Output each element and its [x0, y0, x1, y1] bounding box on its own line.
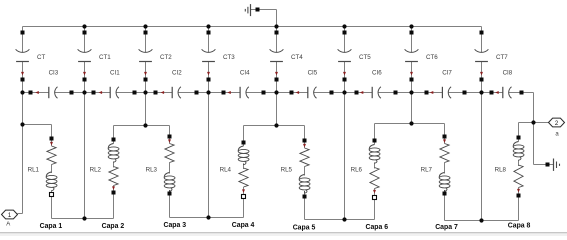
- wire port 1 to column 1: [18, 93, 23, 214]
- wire T2 RL2-RL3 top: [114, 125, 170, 127]
- ground G1 (top): [245, 4, 276, 26]
- label CT6: [426, 54, 438, 61]
- node bus junction col 1: [20, 90, 24, 94]
- wire column 5 shunt branch: [276, 27, 278, 93]
- svg-text:Capa 7: Capa 7: [435, 224, 458, 231]
- label CI4: [240, 69, 250, 76]
- capacitor CT2: [139, 31, 153, 82]
- wire bottom bus Capa1-2: [52, 218, 114, 220]
- wire bus section CI3: [23, 92, 85, 94]
- svg-text:CI2: CI2: [172, 69, 182, 76]
- label RL1: [28, 167, 40, 174]
- wire bus section CI1: [85, 92, 146, 94]
- label RL6: [351, 167, 363, 174]
- svg-text:RL2: RL2: [90, 167, 102, 174]
- capacitor CT5: [338, 31, 352, 82]
- wire bus section CI5: [277, 92, 345, 94]
- node bus junction col 7: [409, 90, 413, 94]
- svg-text:CT: CT: [37, 54, 45, 61]
- wire T4 RL6-RL7 top: [375, 123, 445, 125]
- series RL branch RL4: [238, 141, 249, 199]
- wire bus section CI2: [146, 92, 209, 94]
- node bus junction col 2: [82, 90, 86, 94]
- label CT7: [496, 54, 508, 61]
- wire bus section CI7: [412, 92, 482, 94]
- wire column 6 lower: [344, 93, 346, 220]
- node rail junction col 4: [206, 24, 210, 28]
- capacitor CT7: [475, 31, 489, 82]
- node rail junction col 2: [82, 24, 86, 28]
- svg-text:CT7: CT7: [496, 54, 508, 61]
- node T4 col7 junction: [409, 121, 413, 125]
- series RL branch RL2: [108, 138, 119, 195]
- wire column 8 shunt branch: [481, 27, 483, 93]
- wire RL7 branch: [444, 124, 446, 221]
- wire T1 col1 to RL1 top: [23, 124, 52, 126]
- svg-text:a: a: [555, 132, 559, 138]
- svg-text:CI4: CI4: [240, 69, 250, 76]
- node bus junction col 8: [479, 90, 483, 94]
- svg-text:CI8: CI8: [503, 69, 513, 76]
- wire RL5 branch: [304, 126, 306, 220]
- capacitor CI4: [222, 87, 266, 99]
- svg-text:CT3: CT3: [223, 54, 235, 61]
- capacitor CI7: [425, 87, 467, 99]
- series RL branch RL7: [439, 135, 450, 196]
- wire column 7 shunt branch: [411, 27, 413, 93]
- wire T3 RL4-RL5 top: [244, 125, 305, 127]
- label CI8: [503, 69, 513, 76]
- svg-text:RL7: RL7: [421, 167, 433, 174]
- svg-text:RL6: RL6: [351, 167, 363, 174]
- label Capa 6: [365, 224, 388, 231]
- svg-text:Capa 3: Capa 3: [163, 222, 186, 229]
- node rail junction col 5: [274, 24, 278, 28]
- svg-text:CT2: CT2: [160, 54, 172, 61]
- wire column 2 shunt branch: [84, 27, 86, 93]
- wire RL4 branch: [243, 126, 245, 218]
- wire column 4 shunt branch: [208, 27, 210, 93]
- wire bus section CI8: [482, 92, 534, 94]
- wire RL2 branch: [113, 126, 115, 219]
- label CI1: [110, 69, 120, 76]
- series RL branch RL6: [369, 139, 380, 200]
- label CI6: [372, 69, 382, 76]
- svg-text:Capa 5: Capa 5: [293, 225, 316, 232]
- svg-text:A: A: [6, 222, 10, 228]
- wire column 6 shunt branch: [344, 27, 346, 93]
- label CT: [37, 54, 45, 61]
- svg-text:CI1: CI1: [110, 69, 120, 76]
- wire T5 RL8 top jog: [519, 122, 534, 124]
- svg-text:Capa 2: Capa 2: [102, 223, 125, 230]
- wire top ground rail: [23, 26, 482, 28]
- series RL branch RL5: [299, 139, 310, 199]
- node N2 port-2 junction: [531, 120, 535, 124]
- wire bottom bus Capa5-6: [305, 219, 375, 221]
- wire column 3 lower: [145, 93, 147, 126]
- svg-text:RL8: RL8: [495, 167, 507, 174]
- label Capa 5: [293, 225, 316, 232]
- label a: [555, 132, 559, 138]
- label RL5: [281, 167, 293, 174]
- svg-text:RL1: RL1: [28, 167, 40, 174]
- label CT2: [160, 54, 172, 61]
- label CI3: [49, 69, 59, 76]
- capacitor CT4: [270, 31, 284, 82]
- wire bus right elbow: [533, 93, 535, 123]
- label Capa 2: [102, 223, 125, 230]
- label CI5: [308, 69, 318, 76]
- label Capa 7: [435, 224, 458, 231]
- svg-text:CT5: CT5: [359, 54, 371, 61]
- wire column 1 shunt branch: [22, 27, 24, 93]
- capacitor CI8: [490, 87, 524, 99]
- label A: [6, 222, 10, 228]
- ground G2 (right): [534, 123, 560, 171]
- label CT3: [223, 54, 235, 61]
- label Capa 4: [232, 222, 255, 229]
- wire column 3 shunt branch: [145, 27, 147, 93]
- label Capa 3: [163, 222, 186, 229]
- svg-text:Capa 1: Capa 1: [40, 223, 63, 230]
- svg-text:CT4: CT4: [291, 54, 303, 61]
- wire RL8 branch: [518, 123, 520, 221]
- svg-text:RL4: RL4: [220, 167, 232, 174]
- node bottom col4: [206, 215, 210, 219]
- capacitor CT: [16, 31, 30, 82]
- label RL2: [90, 167, 102, 174]
- svg-text:Capa 4: Capa 4: [232, 222, 255, 229]
- series RL branch RL3: [164, 135, 175, 196]
- wire bus section CI6: [345, 92, 412, 94]
- node bottom col2: [82, 216, 86, 220]
- svg-text:Capa 6: Capa 6: [365, 224, 388, 231]
- capacitor CI5: [290, 87, 334, 99]
- capacitor CI1: [92, 87, 137, 99]
- wire column 2 lower: [84, 93, 86, 219]
- node rail junction col 7: [409, 24, 413, 28]
- label RL8: [495, 167, 507, 174]
- svg-text:RL3: RL3: [146, 167, 158, 174]
- wire bottom bus Capa7-8: [445, 220, 519, 222]
- wire column 4 lower: [208, 93, 210, 218]
- label RL3: [146, 167, 158, 174]
- label RL4: [220, 167, 232, 174]
- series RL branch RL8: [513, 136, 524, 198]
- label CI2: [172, 69, 182, 76]
- port 2: [549, 118, 565, 127]
- wire column 8 lower: [481, 93, 483, 221]
- svg-text:Capa 8: Capa 8: [508, 223, 531, 230]
- node T1 junction: [20, 122, 24, 126]
- node bus junction col 3: [143, 90, 147, 94]
- label CI7: [442, 69, 452, 76]
- wire RL6 branch: [374, 124, 376, 220]
- label CT1: [99, 54, 111, 61]
- label Capa 1: [40, 223, 63, 230]
- svg-text:RL5: RL5: [281, 167, 293, 174]
- svg-text:CT6: CT6: [426, 54, 438, 61]
- svg-text:CT1: CT1: [99, 54, 111, 61]
- node bus junction col 4: [206, 90, 210, 94]
- wire RL1 branch: [51, 125, 53, 219]
- port 1: [2, 210, 18, 219]
- wire column 5 lower: [276, 93, 278, 126]
- svg-text:CI5: CI5: [308, 69, 318, 76]
- series RL branch RL1: [46, 137, 57, 197]
- capacitor CT3: [202, 31, 216, 82]
- node bus junction col 6: [342, 90, 346, 94]
- node rail junction col 3: [143, 24, 147, 28]
- node rail junction col 6: [342, 24, 346, 28]
- capacitor CI2: [154, 87, 199, 99]
- node bottom col6: [342, 217, 346, 221]
- capacitor CT6: [405, 31, 419, 82]
- svg-text:CI7: CI7: [442, 69, 452, 76]
- wire bottom bus Capa3-4: [170, 217, 244, 219]
- node T3 col5 junction: [274, 123, 278, 127]
- label CT4: [291, 54, 303, 61]
- node bus junction col 5: [274, 90, 278, 94]
- wire bus section CI4: [209, 92, 277, 94]
- label CT5: [359, 54, 371, 61]
- wire RL3 branch: [169, 126, 171, 218]
- node bottom col8: [479, 218, 483, 222]
- capacitor CI6: [355, 87, 398, 99]
- wire to port 2: [534, 122, 550, 124]
- window bottom border: [0, 233, 567, 237]
- wire column 7 lower: [411, 93, 413, 124]
- capacitor CT1: [78, 31, 92, 82]
- svg-text:CI6: CI6: [372, 69, 382, 76]
- node T2 col3 junction: [143, 123, 147, 127]
- label RL7: [421, 167, 433, 174]
- svg-text:CI3: CI3: [49, 69, 59, 76]
- label Capa 8: [508, 223, 531, 230]
- capacitor CI3: [29, 87, 74, 99]
